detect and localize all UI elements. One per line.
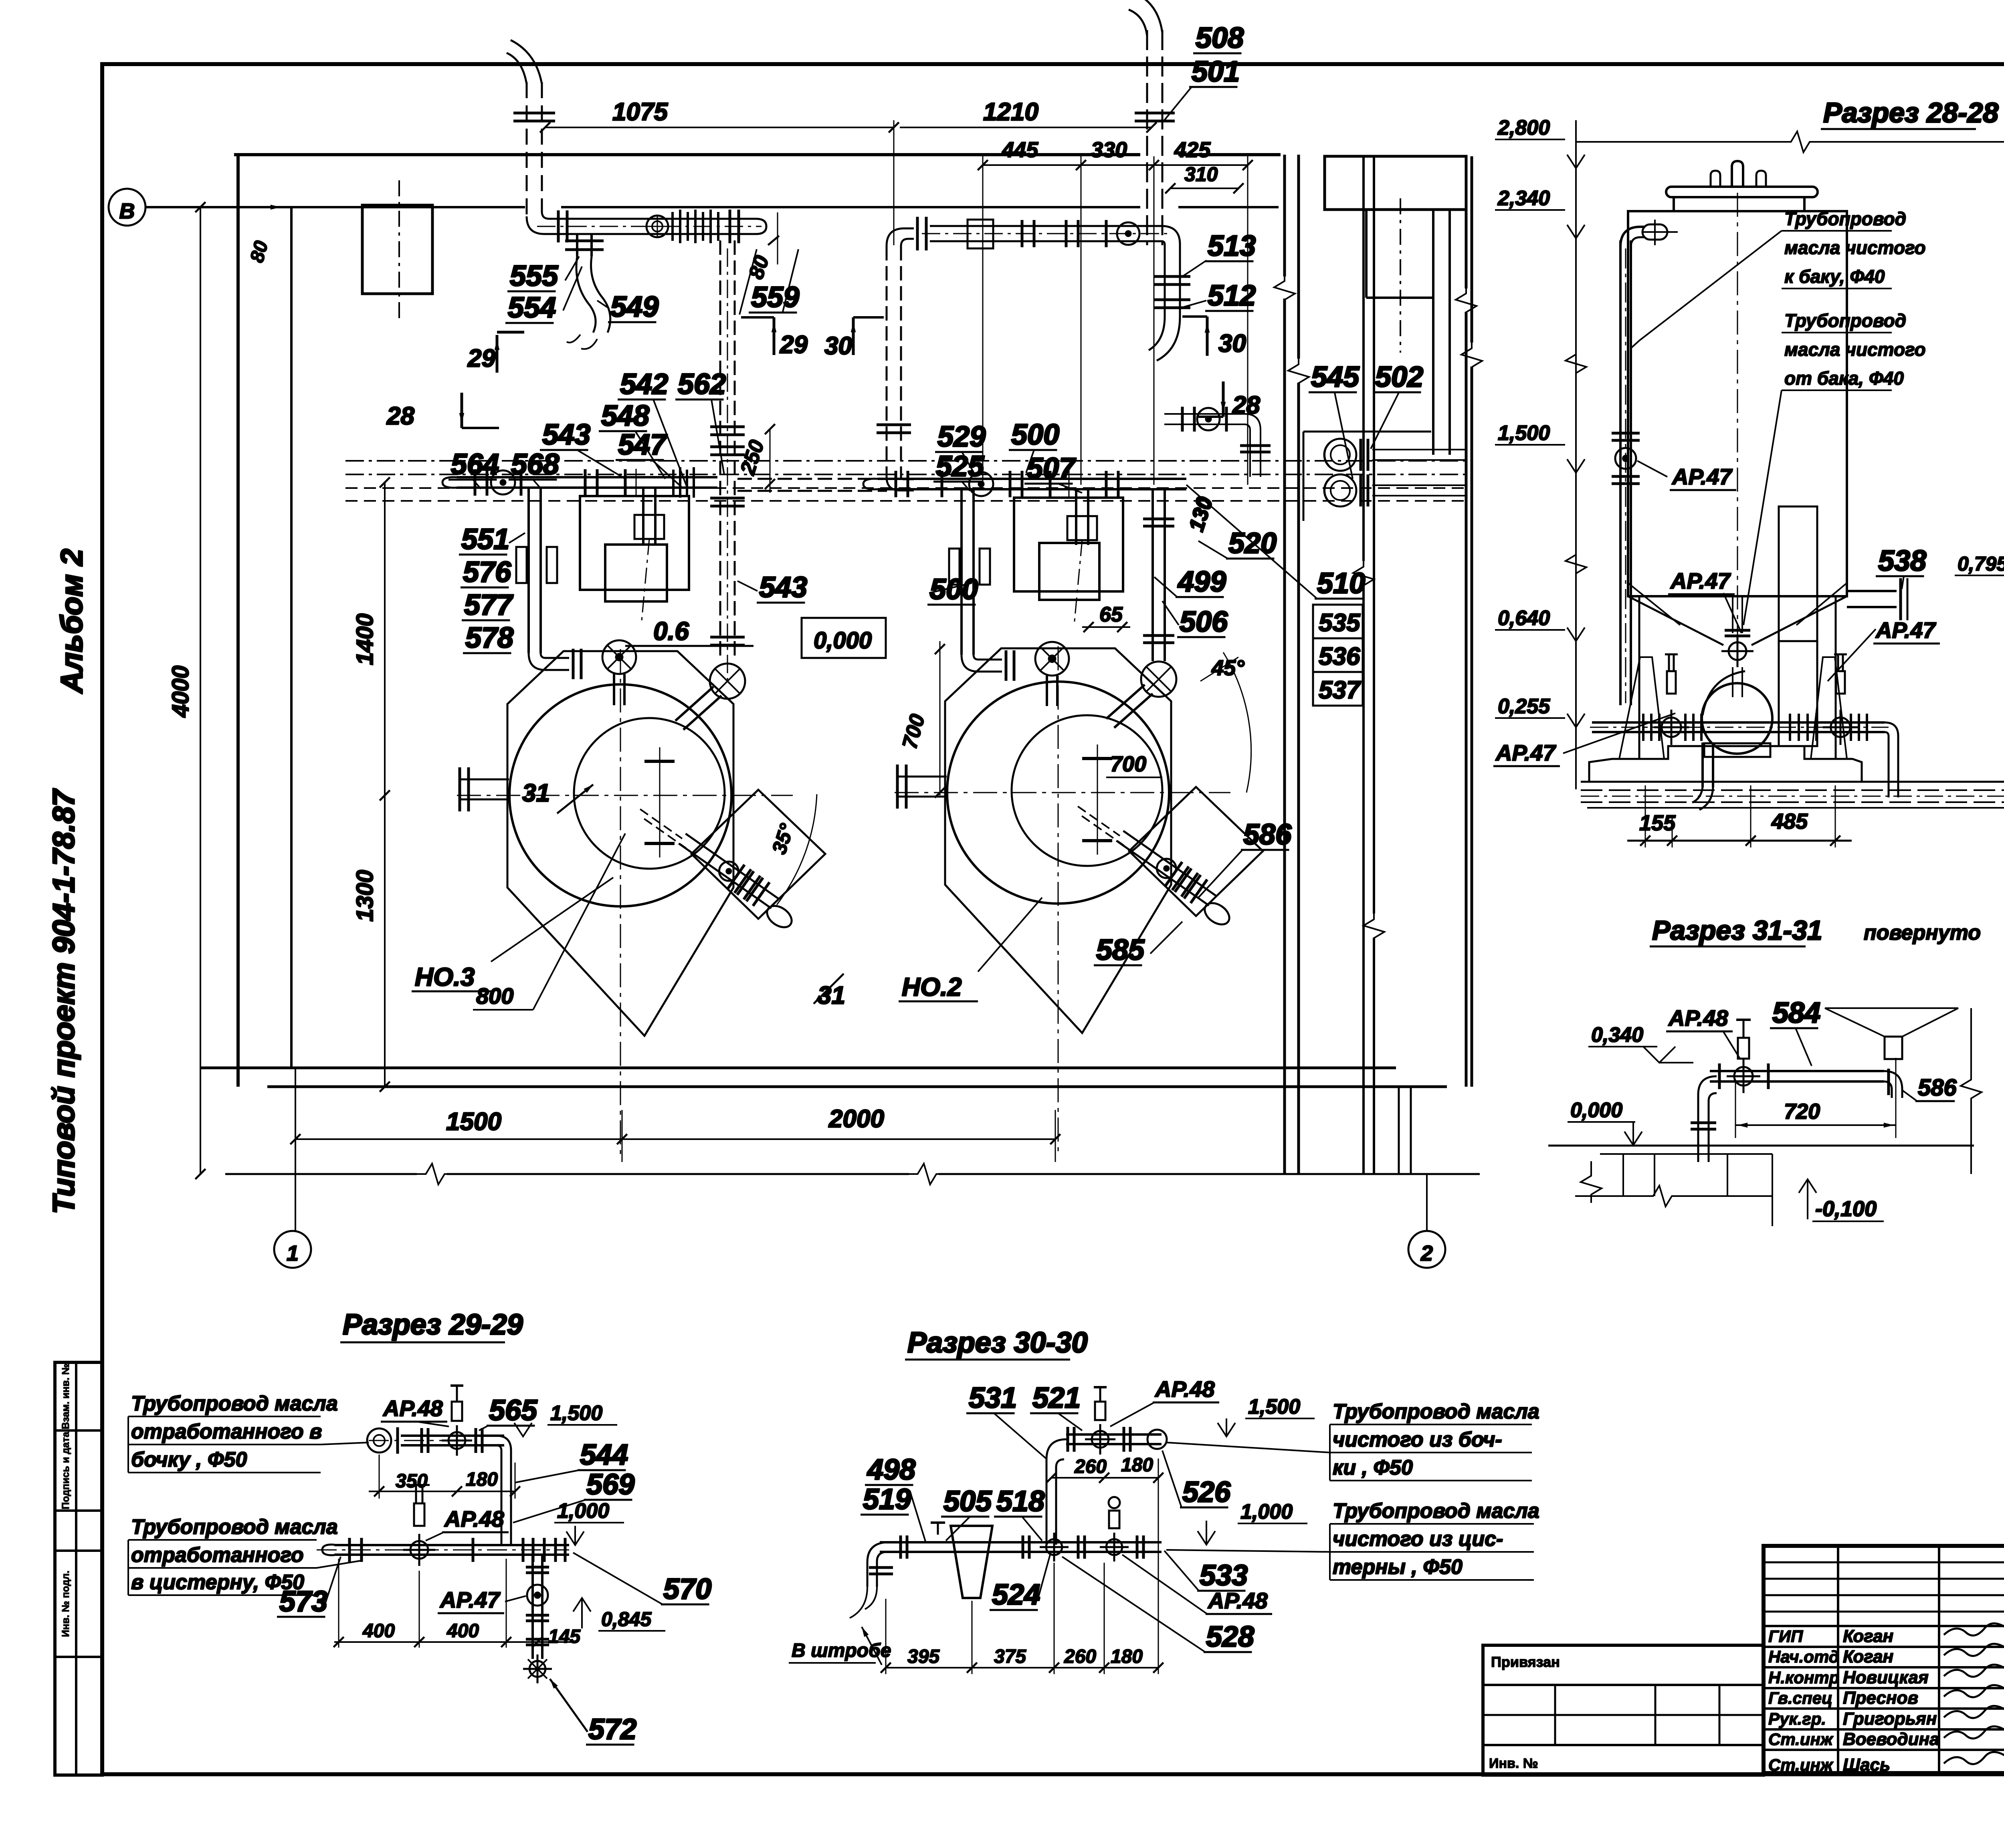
dim 80 rot — [744, 212, 779, 282]
svg-text:518: 518 — [996, 1485, 1044, 1517]
svg-text:543: 543 — [542, 419, 590, 451]
svg-text:510: 510 — [1317, 567, 1365, 599]
svg-text:524: 524 — [992, 1579, 1040, 1611]
label АР.48 s30a — [1110, 1376, 1219, 1426]
label 547 — [616, 429, 681, 487]
svg-text:521: 521 — [1032, 1382, 1081, 1414]
label 31 bottom — [814, 974, 845, 1009]
label 524 — [990, 1555, 1050, 1611]
machine2 suction piping — [863, 471, 1186, 728]
svg-text:720: 720 — [1784, 1100, 1820, 1124]
sec28 dims — [1627, 785, 1852, 847]
svg-text:Трубопровод масла: Трубопровод масла — [1333, 1499, 1539, 1523]
svg-text:Новицкая: Новицкая — [1843, 1668, 1929, 1687]
svg-text:2,800: 2,800 — [1497, 116, 1550, 139]
label 578 — [463, 622, 513, 654]
axis 1 bubble — [274, 1068, 311, 1268]
level 1,000 s29 — [554, 1499, 624, 1545]
svg-text:45°: 45° — [1211, 656, 1244, 680]
svg-text:Гв.спец: Гв.спец — [1768, 1689, 1832, 1707]
svg-text:-0,100: -0,100 — [1815, 1197, 1877, 1221]
svg-text:Преснов: Преснов — [1843, 1688, 1918, 1708]
label В штробе — [789, 1627, 891, 1665]
svg-text:АР.47: АР.47 — [1671, 464, 1733, 489]
svg-text:543: 543 — [759, 571, 807, 603]
section 28-28 title — [1821, 97, 2004, 129]
svg-text:507: 507 — [1027, 452, 1076, 484]
label 576 — [461, 556, 511, 588]
svg-text:1,000: 1,000 — [1240, 1500, 1293, 1523]
svg-text:525: 525 — [936, 450, 984, 482]
svg-text:260: 260 — [1074, 1456, 1107, 1477]
svg-text:505: 505 — [943, 1485, 992, 1517]
label 528 — [1062, 1557, 1254, 1653]
oil pipelines dash-dot — [345, 461, 1466, 501]
dim 1210 — [900, 98, 1157, 133]
svg-text:545: 545 — [1311, 361, 1360, 393]
svg-text:Альбом 2: Альбом 2 — [55, 549, 89, 694]
level 0,000 s31 — [1568, 1099, 1647, 1145]
dim 720 — [1735, 1058, 1896, 1138]
svg-text:масла чистого: масла чистого — [1784, 237, 1926, 258]
svg-text:Трубопровод масла: Трубопровод масла — [131, 1515, 338, 1539]
svg-text:В: В — [119, 199, 135, 223]
svg-text:Трубопровод масла: Трубопровод масла — [1333, 1400, 1539, 1423]
svg-text:529: 529 — [937, 421, 986, 453]
svg-text:499: 499 — [1177, 566, 1226, 598]
svg-text:Трубопровод масла: Трубопровод масла — [131, 1392, 338, 1415]
dims 400/400/145 — [333, 1559, 581, 1648]
margin text Альбом 2 — [55, 549, 89, 694]
svg-text:0,255: 0,255 — [1498, 695, 1550, 718]
svg-text:30: 30 — [824, 332, 852, 360]
svg-text:544: 544 — [580, 1439, 628, 1471]
label 800 — [473, 833, 625, 1010]
text чистого из цистерны — [1166, 1499, 1539, 1580]
svg-text:0,340: 0,340 — [1591, 1023, 1643, 1047]
svg-text:Инв. №: Инв. № — [1489, 1756, 1538, 1771]
pipe 549 branch down — [565, 234, 610, 349]
sec29 upper pipe — [367, 1386, 511, 1545]
svg-text:498: 498 — [867, 1454, 915, 1486]
svg-text:В штробе: В штробе — [792, 1640, 891, 1661]
label 533 — [1164, 1551, 1248, 1592]
label 500b — [927, 573, 978, 605]
svg-text:1,000: 1,000 — [557, 1499, 609, 1523]
right walls — [1274, 155, 1482, 1174]
dim 350/180 — [369, 1455, 520, 1499]
label 507 — [1024, 452, 1082, 493]
label 586 s31 — [1902, 1075, 1957, 1101]
pillar P2 — [1014, 470, 1123, 600]
bottom wall — [200, 1068, 1447, 1087]
svg-text:Разрез 28-28: Разрез 28-28 — [1823, 97, 1998, 128]
sec28 top line — [1576, 131, 2004, 152]
section 30-30 title — [905, 1327, 1088, 1360]
label 543b — [737, 571, 807, 603]
dim 130 rot — [1185, 494, 1218, 535]
svg-text:502: 502 — [1375, 361, 1423, 393]
svg-text:Разрез 29-29: Разрез 29-29 — [343, 1309, 523, 1341]
svg-text:537: 537 — [1319, 676, 1361, 704]
svg-text:65: 65 — [1099, 603, 1123, 626]
svg-text:565: 565 — [489, 1394, 537, 1426]
svg-text:508: 508 — [1196, 22, 1244, 54]
label НО.3 — [412, 962, 491, 991]
svg-text:НО.2: НО.2 — [902, 972, 962, 1001]
svg-text:АР.47: АР.47 — [1670, 568, 1731, 593]
svg-text:0,795: 0,795 — [1958, 553, 2004, 575]
label АР.47 — [1670, 464, 1736, 490]
svg-text:1,500: 1,500 — [1248, 1395, 1300, 1418]
pipe 562 drop to machine1 — [675, 240, 745, 730]
svg-text:485: 485 — [1771, 809, 1808, 833]
label 498 — [865, 1454, 915, 1486]
svg-text:Ст.инж: Ст.инж — [1768, 1730, 1834, 1749]
svg-text:Ст.инж: Ст.инж — [1768, 1755, 1834, 1774]
bottom break line — [225, 1164, 1480, 1184]
svg-text:Взам. инв. №: Взам. инв. № — [60, 1364, 71, 1429]
svg-text:576: 576 — [463, 556, 511, 588]
section 31-31 title — [1650, 915, 1981, 946]
title block signature table — [1764, 1546, 2004, 1775]
label 531 — [966, 1382, 1046, 1459]
svg-text:30: 30 — [1218, 330, 1246, 357]
machine НО.2 — [895, 646, 1263, 1155]
label 585 — [1094, 922, 1182, 966]
svg-text:чистого из цис-: чистого из цис- — [1333, 1527, 1503, 1551]
svg-text:400: 400 — [446, 1620, 479, 1642]
svg-text:Шась: Шась — [1843, 1755, 1890, 1775]
svg-text:в цистерну, Ф50: в цистерну, Ф50 — [131, 1571, 304, 1594]
label 586 — [1198, 819, 1292, 898]
svg-text:551: 551 — [461, 523, 509, 555]
svg-text:1400: 1400 — [352, 613, 378, 665]
svg-text:2000: 2000 — [828, 1105, 884, 1133]
svg-text:1,500: 1,500 — [550, 1402, 602, 1425]
wall along axis В — [146, 155, 1281, 207]
label 573 — [277, 1557, 341, 1618]
svg-text:Коган: Коган — [1843, 1626, 1893, 1646]
label 562 — [675, 368, 726, 475]
label 65 — [1082, 603, 1130, 632]
sec30 upper pipe — [1046, 1387, 1167, 1547]
dim 1075 — [540, 98, 899, 245]
label 700 diag — [1106, 752, 1162, 777]
label 505 — [941, 1485, 992, 1541]
machine НО.3 — [457, 649, 825, 1158]
sec31 right break line — [1961, 1008, 1982, 1174]
label 521 — [1030, 1382, 1082, 1430]
label 545 — [1309, 361, 1360, 479]
ap47 leaders — [1563, 461, 2004, 753]
label 500a — [1009, 419, 1059, 473]
svg-text:бочку , Ф50: бочку , Ф50 — [131, 1448, 247, 1471]
svg-text:425: 425 — [1174, 138, 1211, 162]
label 568 — [509, 448, 559, 489]
axis В arrow — [172, 205, 281, 210]
svg-text:548: 548 — [601, 400, 649, 432]
svg-text:0,000: 0,000 — [814, 627, 872, 654]
dashed riser to wall run right — [877, 217, 926, 490]
svg-text:НО.3: НО.3 — [415, 962, 475, 991]
label 542 — [618, 368, 687, 486]
label 584 — [1770, 997, 1820, 1066]
text отработанного в бочку — [128, 1392, 369, 1473]
cut mark 28 right — [1196, 381, 1260, 419]
label 570 — [573, 1553, 711, 1605]
svg-text:500: 500 — [930, 573, 978, 605]
label 529 — [935, 421, 986, 473]
svg-text:0.6: 0.6 — [653, 617, 689, 646]
svg-text:1500: 1500 — [446, 1108, 501, 1136]
svg-text:от бака, Ф40: от бака, Ф40 — [1784, 368, 1904, 389]
svg-text:1,500: 1,500 — [1498, 422, 1550, 445]
pipe 507 over machine2 — [1164, 407, 1271, 477]
svg-text:Типовой проект 904-1-78.87: Типовой проект 904-1-78.87 — [47, 788, 81, 1214]
label 700 rot — [898, 641, 945, 798]
sec28 ground — [1581, 782, 2004, 808]
label 518 — [994, 1485, 1044, 1541]
level 1,000 s30 — [1198, 1500, 1307, 1545]
svg-text:1210: 1210 — [983, 98, 1038, 126]
axis В bubble — [109, 189, 145, 226]
svg-text:395: 395 — [907, 1646, 940, 1667]
label 549 — [597, 291, 659, 323]
svg-text:542: 542 — [620, 368, 668, 400]
pipe run along top wall with bellows — [537, 210, 766, 243]
svg-text:31: 31 — [522, 779, 550, 807]
Привязан table — [1483, 1645, 1764, 1775]
svg-text:АР.47: АР.47 — [439, 1587, 501, 1612]
dim 250 rot — [736, 424, 775, 493]
svg-text:0,000: 0,000 — [1570, 1099, 1622, 1122]
dims 445/330/425/310 — [978, 138, 1252, 485]
svg-text:АР.48: АР.48 — [382, 1396, 443, 1421]
svg-text:4000: 4000 — [168, 666, 194, 718]
label 510 — [1186, 485, 1365, 599]
cut mark 30 right — [1182, 317, 1246, 357]
dim 80 rot — [246, 238, 272, 265]
svg-text:800: 800 — [476, 983, 513, 1009]
svg-text:29: 29 — [780, 331, 808, 359]
label 31 top — [522, 779, 593, 813]
svg-text:180: 180 — [1121, 1455, 1153, 1476]
label 512 — [1178, 280, 1256, 312]
svg-text:584: 584 — [1772, 997, 1820, 1029]
svg-text:564: 564 — [451, 448, 499, 480]
label 538 — [1876, 545, 1926, 589]
pillar P1 — [580, 469, 689, 601]
svg-text:536: 536 — [1319, 643, 1360, 670]
svg-text:Разрез 30-30: Разрез 30-30 — [907, 1327, 1088, 1359]
sec29 lower pipe — [317, 1485, 569, 1683]
svg-text:Рук.гр.: Рук.гр. — [1768, 1709, 1826, 1728]
svg-text:375: 375 — [994, 1646, 1026, 1667]
left accessory column — [55, 1362, 102, 1775]
svg-text:572: 572 — [588, 1713, 636, 1745]
svg-text:Григорьян: Григорьян — [1843, 1709, 1937, 1729]
svg-text:577: 577 — [464, 589, 513, 621]
svg-text:2: 2 — [1420, 1241, 1433, 1265]
machine1 suction piping — [442, 467, 717, 705]
pipe 501 external dashed — [1129, 0, 1175, 245]
svg-text:555: 555 — [510, 260, 558, 292]
label 565 — [479, 1394, 537, 1430]
label 569 — [513, 1469, 634, 1523]
label 513 — [1182, 230, 1256, 276]
text отработанного в цистерну — [128, 1515, 361, 1595]
label 525 — [933, 450, 984, 491]
svg-text:562: 562 — [678, 368, 726, 400]
dim 35 arc — [768, 794, 817, 905]
svg-text:ГИП: ГИП — [1768, 1627, 1803, 1646]
level 0,845 — [573, 1598, 665, 1631]
label 543 — [540, 419, 625, 479]
svg-text:АР.48: АР.48 — [1207, 1588, 1268, 1613]
svg-text:445: 445 — [1002, 138, 1038, 162]
svg-text:1075: 1075 — [612, 98, 668, 126]
svg-text:180: 180 — [466, 1469, 498, 1490]
level -0,100 — [1799, 1179, 1884, 1221]
label 577 — [462, 589, 513, 621]
svg-text:538: 538 — [1878, 545, 1926, 577]
svg-text:Трубопровод: Трубопровод — [1784, 208, 1906, 229]
level 0,340 — [1588, 1023, 1693, 1063]
svg-text:585: 585 — [1096, 934, 1145, 966]
svg-text:Коган: Коган — [1843, 1647, 1893, 1666]
dim 130 rot — [1185, 494, 1216, 534]
label 526 — [1162, 1451, 1231, 1508]
labels 535/536/537 — [1313, 605, 1363, 706]
dim 2000 bottom — [622, 1105, 1061, 1162]
svg-text:АР.47: АР.47 — [1495, 740, 1556, 765]
label АР.47 s29 — [438, 1587, 526, 1613]
svg-text:535: 535 — [1319, 609, 1361, 637]
label 0,795 — [1955, 553, 2004, 599]
label 506 — [1162, 601, 1228, 638]
dim 260/180 s30 — [1046, 1455, 1163, 1483]
dashed pipe between machines — [737, 479, 887, 491]
sec30 lower pipe — [850, 1497, 1162, 1618]
svg-text:513: 513 — [1208, 230, 1256, 262]
svg-text:554: 554 — [508, 292, 556, 324]
label 508 — [1193, 22, 1244, 54]
svg-text:отработанного: отработанного — [131, 1543, 304, 1567]
svg-text:Н.контр: Н.контр — [1768, 1668, 1839, 1687]
svg-text:519: 519 — [863, 1483, 911, 1515]
svg-text:586: 586 — [1243, 819, 1292, 851]
text Трубопровод масла чистого к баку — [1630, 208, 1926, 349]
text чистого из бочки — [1166, 1400, 1539, 1481]
label АР.48 s29a — [381, 1396, 449, 1426]
svg-text:568: 568 — [511, 448, 559, 480]
svg-text:547: 547 — [618, 429, 667, 461]
label 551 — [459, 523, 525, 555]
svg-text:549: 549 — [610, 291, 659, 323]
svg-text:Воеводина: Воеводина — [1843, 1729, 1939, 1749]
label 502 — [1371, 361, 1423, 449]
margin text Типовой проект — [47, 788, 81, 1214]
svg-text:Разрез 31-31: Разрез 31-31 — [1652, 915, 1822, 946]
svg-text:533: 533 — [1200, 1560, 1248, 1592]
pipe run along top wall right — [922, 220, 1190, 361]
svg-text:Инв. № подл.: Инв. № подл. — [60, 1571, 71, 1637]
svg-text:АР.47: АР.47 — [1875, 617, 1936, 643]
svg-text:2,340: 2,340 — [1497, 187, 1550, 210]
svg-text:Привязан: Привязан — [1491, 1654, 1560, 1670]
level 1,500 s29 — [514, 1402, 617, 1436]
text Трубопровод масла чистого от бака — [1743, 310, 1926, 625]
svg-text:512: 512 — [1208, 280, 1256, 312]
sec28 level dims left — [1495, 116, 1586, 789]
tank 1 section 28 — [1589, 161, 1907, 810]
svg-text:500: 500 — [1011, 419, 1059, 451]
label 520 — [1198, 527, 1277, 559]
svg-text:506: 506 — [1180, 606, 1228, 638]
svg-text:0,845: 0,845 — [601, 1608, 652, 1630]
svg-text:АР.48: АР.48 — [444, 1506, 504, 1531]
svg-text:масла чистого: масла чистого — [1784, 339, 1926, 360]
label 519 — [861, 1483, 926, 1543]
label НО.2 — [899, 972, 978, 1001]
svg-text:330: 330 — [1091, 138, 1127, 162]
label 544 — [515, 1439, 628, 1483]
section 31 floor — [1548, 1146, 1974, 1226]
svg-text:578: 578 — [465, 622, 513, 654]
label 548 — [599, 400, 665, 479]
svg-text:ки , Ф50: ки , Ф50 — [1333, 1456, 1413, 1479]
axis 2 bubble — [1399, 1087, 1445, 1268]
svg-text:отработанного в: отработанного в — [131, 1420, 322, 1443]
label 564 — [448, 448, 499, 489]
svg-text:501: 501 — [1192, 56, 1240, 88]
svg-text:400: 400 — [362, 1620, 395, 1642]
section 31 pipe — [1691, 1008, 1958, 1164]
level 1,500 s30 — [1218, 1395, 1315, 1436]
dim 4000 vertical — [168, 202, 206, 1179]
risers 545/502 — [1324, 439, 1466, 506]
section 29-29 title — [340, 1309, 523, 1342]
left wall — [238, 155, 291, 1087]
dim 1400/1300 vertical — [352, 477, 390, 1091]
dim 1500 bottom — [290, 1108, 627, 1144]
label 554 — [505, 266, 582, 324]
label АР.48 s31 — [1666, 1005, 1739, 1058]
svg-text:29: 29 — [467, 345, 495, 372]
label 555 — [507, 256, 579, 292]
wall pillar left — [362, 180, 432, 321]
label АР.48 s29b — [426, 1506, 509, 1541]
svg-text:570: 570 — [663, 1573, 711, 1605]
svg-text:573: 573 — [279, 1586, 327, 1618]
svg-text:1300: 1300 — [352, 870, 378, 922]
svg-text:145: 145 — [548, 1626, 581, 1647]
label 0.6 — [625, 617, 754, 646]
label АР.47 — [1493, 740, 1560, 766]
svg-text:586: 586 — [1918, 1075, 1957, 1101]
svg-text:0,640: 0,640 — [1498, 607, 1550, 630]
svg-text:терны , Ф50: терны , Ф50 — [1333, 1555, 1463, 1579]
label 559 — [739, 249, 799, 315]
cut mark 28 left — [386, 393, 499, 430]
machine leaders — [491, 878, 1042, 972]
svg-text:Трубопровод: Трубопровод — [1784, 310, 1906, 331]
label 0,000 boxed — [802, 618, 886, 658]
label 499 — [1154, 566, 1226, 598]
svg-text:528: 528 — [1206, 1621, 1254, 1653]
label АР.48 s30b — [1122, 1555, 1272, 1614]
